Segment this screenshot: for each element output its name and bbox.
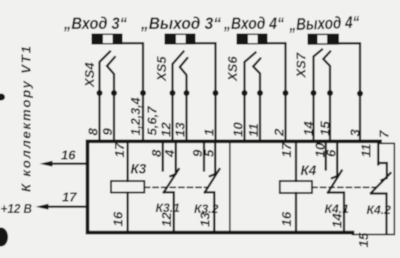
node XS5 break [184, 90, 190, 96]
mechanical link (dashed) K4 [312, 186, 376, 188]
svg-text:4: 4 [162, 149, 177, 158]
wire coil K3 pin 16 [126, 193, 128, 232]
svg-text:17: 17 [62, 190, 77, 205]
wire XS5 tip to pin 12 [171, 93, 173, 142]
svg-text:„Выход 3“: „Выход 3“ [140, 14, 221, 33]
svg-text:7: 7 [377, 130, 392, 138]
wire coil K4 pin 17 [295, 144, 297, 181]
connector jack "Выход 4" [308, 34, 340, 45]
wire XS4 tip to pin 8 [98, 93, 100, 142]
svg-text:+12 В: +12 В [1, 202, 33, 216]
connector jack "Вход 4" [237, 34, 268, 45]
wire pin 16 to collector VT1 (arrow) [45, 163, 87, 165]
case divider between relay sections [229, 144, 231, 231]
module case right edge / contact pin 11 of K4.2 [377, 141, 379, 164]
svg-text:14: 14 [329, 213, 344, 228]
connector jack "Выход 3" [165, 34, 196, 45]
svg-text:5: 5 [202, 149, 217, 157]
svg-text:8: 8 [86, 128, 101, 136]
svg-text:„Вход 4“: „Вход 4“ [223, 14, 284, 33]
wire coil K4 pin 16 [295, 193, 297, 231]
svg-text:11: 11 [359, 144, 374, 158]
wire sleeve "Выход 3" to pin 1 [196, 43, 216, 141]
svg-text:11: 11 [246, 123, 261, 137]
contact K3.2 (changeover) [204, 144, 220, 231]
scan artifact: edge blob [0, 228, 8, 247]
switch XS7 tip contact [314, 50, 323, 94]
svg-text:2: 2 [272, 128, 287, 137]
svg-text:12: 12 [159, 122, 174, 137]
arrowhead pin 17 [36, 204, 49, 210]
wire XS6 tip to pin 10 [243, 93, 245, 142]
relay coil K3 [111, 181, 144, 193]
svg-text:К коллектору VT1: К коллектору VT1 [19, 46, 34, 192]
svg-text:14: 14 [301, 121, 316, 136]
svg-text:9: 9 [100, 128, 115, 136]
svg-text:1: 1 [202, 129, 217, 136]
node sleeve 1 [140, 90, 146, 96]
node XS5 tip [170, 90, 176, 96]
svg-text:„Вход 3“: „Вход 3“ [63, 14, 127, 33]
connector jack "Вход 3" [92, 34, 123, 45]
svg-text:XS5: XS5 [154, 56, 169, 82]
switch XS7 break contact [323, 52, 330, 94]
wire XS6 break to pin 11 [259, 93, 261, 142]
node sleeve 3 [283, 90, 289, 96]
svg-text:1,2,3,4: 1,2,3,4 [128, 97, 143, 136]
module case (thick outline) [88, 141, 381, 232]
contact K4.1 (changeover) [326, 144, 344, 231]
relay coil K4 [280, 181, 312, 193]
svg-text:К3: К3 [131, 162, 147, 177]
node XS6 break [257, 90, 263, 96]
wire sleeve "Вход 3" to pins 1,2,3,4 / 5,6,7 [123, 43, 144, 141]
wire XS4 break to pin 9 [113, 93, 115, 142]
svg-text:15: 15 [356, 232, 371, 247]
switch XS5 break contact [180, 58, 188, 93]
svg-text:XS7: XS7 [294, 52, 309, 78]
svg-text:12: 12 [159, 212, 174, 227]
wire coil K3 pin 17 [126, 144, 128, 181]
node XS4 break [111, 90, 117, 96]
wire sleeve "Выход 4" to pin 3 [339, 43, 360, 141]
arrowhead pin 16 [40, 161, 53, 167]
switch XS6 tip contact [245, 53, 256, 94]
contact K3.1 (changeover) [163, 144, 179, 231]
node XS6 tip [242, 90, 248, 96]
svg-text:16: 16 [111, 211, 126, 226]
switch XS6 break contact [253, 59, 260, 94]
switch XS4 break contact [107, 57, 115, 93]
svg-text:К4.2: К4.2 [367, 203, 392, 217]
module case thin extension around K4.2 [353, 143, 395, 234]
node sleeve 4 [357, 91, 363, 97]
svg-text:3: 3 [348, 129, 363, 137]
node sleeve 2 [213, 90, 219, 96]
switch XS5 tip contact [173, 52, 184, 94]
wire XS7 tip to pin 14 [312, 93, 314, 142]
wire XS7 break to pin 15 [329, 93, 331, 142]
svg-text:К4: К4 [301, 163, 317, 178]
svg-text:17: 17 [112, 142, 127, 157]
svg-text:16: 16 [61, 148, 76, 163]
wire XS5 break to pin 13 [185, 93, 187, 142]
switch XS4 tip contact [100, 52, 111, 94]
svg-text:XS6: XS6 [225, 56, 240, 82]
scan artifact: edge dash [0, 94, 5, 101]
svg-text:17: 17 [279, 142, 294, 157]
svg-text:5,6,7: 5,6,7 [145, 106, 160, 136]
svg-text:XS4: XS4 [82, 62, 97, 88]
svg-text:6: 6 [324, 149, 339, 157]
svg-text:16: 16 [279, 211, 294, 226]
mechanical link (dashed) K3 [145, 186, 208, 188]
svg-text:„Выход 4“: „Выход 4“ [288, 13, 360, 34]
wire sleeve "Вход 4" to pin 2 [268, 43, 286, 141]
svg-text:13: 13 [198, 212, 213, 227]
node XS7 tip [311, 90, 317, 96]
node XS7 break [327, 90, 333, 96]
node XS4 tip [97, 90, 103, 96]
svg-text:13: 13 [173, 122, 188, 137]
wire pin 17 to +12 V (arrow) [41, 206, 87, 208]
svg-text:15: 15 [318, 121, 333, 136]
svg-text:10: 10 [231, 122, 246, 137]
contact K4.2 (changeover) [371, 163, 391, 234]
